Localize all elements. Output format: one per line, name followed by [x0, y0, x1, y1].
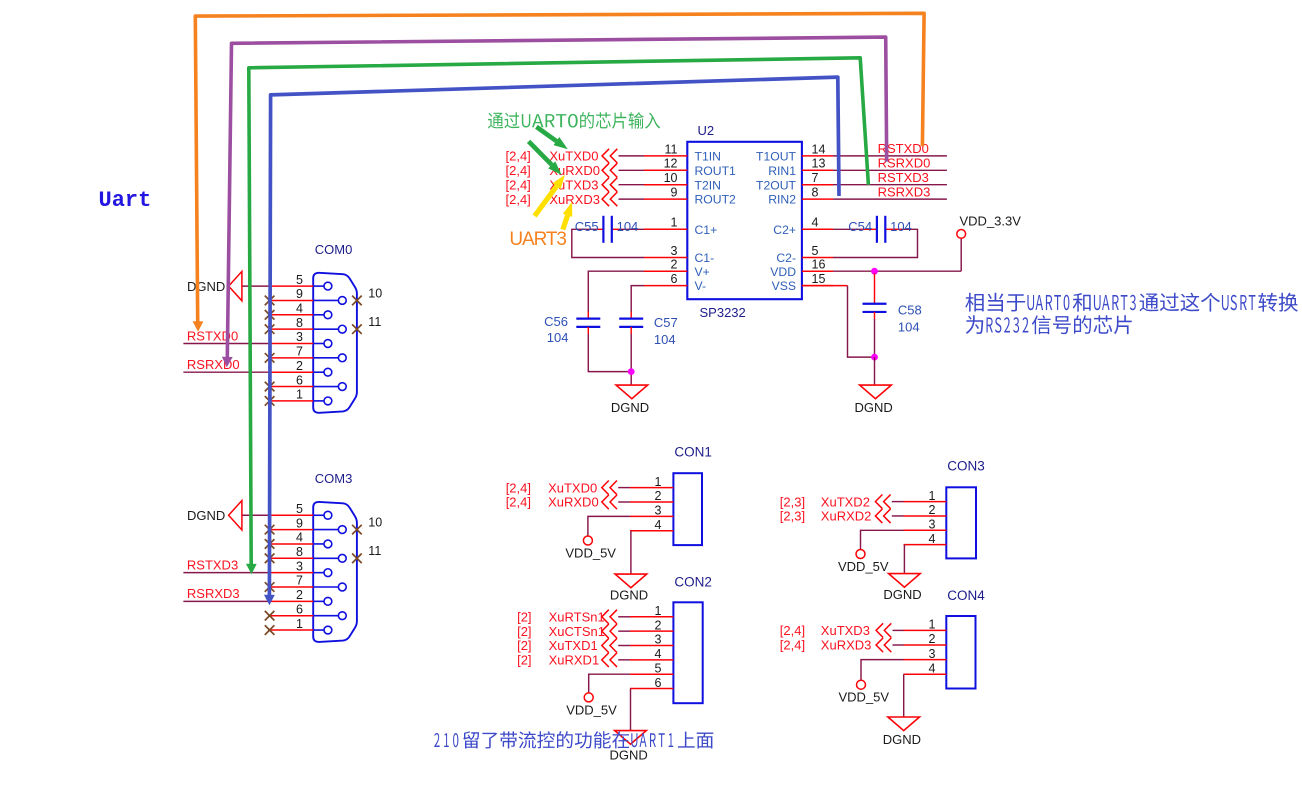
svg-text:T2IN: T2IN: [695, 178, 721, 192]
svg-text:10: 10: [368, 286, 382, 300]
svg-text:10: 10: [664, 171, 678, 185]
svg-text:16: 16: [812, 258, 826, 272]
svg-text:SP3232: SP3232: [700, 305, 746, 320]
svg-text:2: 2: [671, 258, 678, 272]
svg-text:RSTXD3: RSTXD3: [878, 170, 929, 185]
svg-text:XuRXD3: XuRXD3: [821, 638, 872, 653]
svg-text:RSRXD3: RSRXD3: [187, 586, 240, 601]
svg-text:11: 11: [665, 142, 678, 156]
svg-text:UART3: UART3: [509, 229, 566, 250]
svg-text:C1-: C1-: [695, 251, 715, 265]
svg-text:1: 1: [655, 475, 662, 489]
svg-text:6: 6: [296, 602, 303, 616]
svg-text:5: 5: [296, 273, 303, 287]
svg-text:1: 1: [296, 617, 303, 631]
svg-text:C56: C56: [544, 314, 568, 329]
svg-text:4: 4: [655, 647, 662, 661]
svg-text:3: 3: [655, 504, 662, 518]
svg-text:XuRTSn1: XuRTSn1: [549, 610, 605, 625]
svg-text:3: 3: [655, 633, 662, 647]
svg-text:[2,4]: [2,4]: [506, 495, 531, 510]
svg-text:XuRXD0: XuRXD0: [548, 495, 599, 510]
svg-text:XuRXD2: XuRXD2: [821, 509, 872, 524]
svg-text:2: 2: [296, 359, 303, 373]
svg-text:U2: U2: [698, 123, 715, 138]
svg-text:C57: C57: [654, 315, 678, 330]
svg-text:12: 12: [664, 157, 678, 171]
svg-text:104: 104: [654, 332, 676, 347]
svg-text:RSRXD0: RSRXD0: [187, 357, 240, 372]
svg-text:[2]: [2]: [517, 624, 531, 639]
svg-text:ROUT2: ROUT2: [695, 193, 737, 207]
svg-text:15: 15: [812, 272, 826, 286]
svg-text:1: 1: [929, 489, 936, 503]
svg-text:2: 2: [655, 489, 662, 503]
svg-text:T2OUT: T2OUT: [756, 178, 797, 192]
svg-text:4: 4: [655, 518, 662, 532]
svg-text:7: 7: [812, 171, 819, 185]
svg-text:4: 4: [929, 532, 936, 546]
svg-text:3: 3: [929, 647, 936, 661]
svg-text:3: 3: [296, 330, 303, 344]
svg-text:5: 5: [655, 661, 662, 675]
svg-text:3: 3: [296, 559, 303, 573]
svg-text:RIN1: RIN1: [768, 164, 796, 178]
svg-text:[2,4]: [2,4]: [506, 480, 531, 495]
svg-text:ROUT1: ROUT1: [695, 164, 737, 178]
svg-text:[2]: [2]: [517, 610, 531, 625]
svg-text:V+: V+: [695, 265, 710, 279]
svg-text:104: 104: [617, 219, 639, 234]
svg-text:7: 7: [296, 345, 303, 359]
svg-text:1: 1: [929, 618, 936, 632]
svg-text:XuCTSn1: XuCTSn1: [549, 624, 605, 639]
svg-text:2: 2: [929, 632, 936, 646]
svg-text:RSTXD0: RSTXD0: [187, 328, 238, 343]
svg-text:DGND: DGND: [187, 279, 225, 294]
svg-text:6: 6: [671, 272, 678, 286]
svg-text:RSRXD3: RSRXD3: [878, 184, 931, 199]
svg-text:VDD_5V: VDD_5V: [838, 559, 889, 574]
svg-text:T1OUT: T1OUT: [756, 150, 797, 164]
svg-text:5: 5: [812, 244, 819, 258]
svg-text:DGND: DGND: [610, 748, 648, 763]
svg-text:CON1: CON1: [674, 444, 712, 459]
svg-text:13: 13: [812, 157, 826, 171]
svg-text:2: 2: [296, 588, 303, 602]
svg-text:14: 14: [812, 142, 826, 156]
svg-text:4: 4: [296, 531, 303, 545]
svg-text:XuTXD3: XuTXD3: [821, 623, 870, 638]
svg-text:104: 104: [547, 330, 569, 345]
svg-text:XuRXD1: XuRXD1: [549, 653, 600, 668]
svg-text:8: 8: [296, 316, 303, 330]
svg-text:[2,3]: [2,3]: [780, 494, 805, 509]
svg-text:8: 8: [296, 545, 303, 559]
svg-text:4: 4: [296, 302, 303, 316]
svg-text:[2,4]: [2,4]: [506, 163, 531, 178]
svg-text:9: 9: [296, 516, 303, 530]
svg-text:C1+: C1+: [695, 223, 718, 237]
svg-text:XuTXD0: XuTXD0: [549, 149, 598, 164]
svg-text:3: 3: [929, 518, 936, 532]
svg-text:DGND: DGND: [883, 587, 921, 602]
svg-text:VSS: VSS: [772, 279, 796, 293]
svg-text:XuTXD0: XuTXD0: [548, 480, 597, 495]
svg-text:C2+: C2+: [773, 223, 796, 237]
svg-text:2: 2: [655, 618, 662, 632]
svg-text:10: 10: [368, 515, 382, 529]
svg-text:C2-: C2-: [776, 251, 796, 265]
svg-text:104: 104: [898, 320, 920, 335]
svg-text:[2]: [2]: [517, 653, 531, 668]
svg-text:2: 2: [929, 503, 936, 517]
svg-text:DGND: DGND: [854, 400, 892, 415]
svg-text:C55: C55: [575, 219, 599, 234]
svg-text:[2,4]: [2,4]: [780, 623, 805, 638]
svg-text:6: 6: [296, 373, 303, 387]
svg-text:CON2: CON2: [674, 574, 712, 589]
svg-text:Uart: Uart: [99, 188, 152, 213]
svg-text:9: 9: [296, 287, 303, 301]
svg-text:6: 6: [655, 676, 662, 690]
svg-text:VDD_5V: VDD_5V: [839, 690, 890, 705]
svg-text:XuTXD1: XuTXD1: [549, 638, 598, 653]
svg-text:1: 1: [655, 604, 662, 618]
svg-text:[2,3]: [2,3]: [780, 509, 805, 524]
svg-text:XuRXD3: XuRXD3: [549, 192, 600, 207]
svg-text:11: 11: [368, 544, 381, 558]
svg-text:XuTXD2: XuTXD2: [821, 494, 870, 509]
svg-text:3: 3: [671, 244, 678, 258]
svg-text:5: 5: [296, 502, 303, 516]
svg-text:V-: V-: [695, 279, 707, 293]
svg-text:[2,4]: [2,4]: [780, 638, 805, 653]
svg-text:VDD_5V: VDD_5V: [566, 702, 617, 717]
svg-text:104: 104: [890, 219, 912, 234]
svg-text:COM0: COM0: [315, 242, 353, 257]
svg-text:9: 9: [671, 186, 678, 200]
svg-text:7: 7: [296, 574, 303, 588]
svg-text:VDD_3.3V: VDD_3.3V: [960, 214, 1022, 229]
svg-text:8: 8: [812, 186, 819, 200]
svg-text:DGND: DGND: [883, 732, 921, 747]
svg-text:RSTXD3: RSTXD3: [187, 557, 238, 572]
svg-text:[2,4]: [2,4]: [506, 177, 531, 192]
svg-text:DGND: DGND: [610, 588, 648, 603]
svg-text:CON4: CON4: [947, 588, 985, 603]
svg-text:[2,4]: [2,4]: [506, 192, 531, 207]
svg-text:DGND: DGND: [611, 400, 649, 415]
svg-text:11: 11: [368, 315, 381, 329]
svg-text:4: 4: [812, 216, 819, 230]
svg-text:C58: C58: [898, 303, 922, 318]
svg-text:C54: C54: [848, 219, 872, 234]
svg-text:VDD: VDD: [770, 265, 796, 279]
svg-text:T1IN: T1IN: [695, 150, 721, 164]
svg-text:1: 1: [296, 388, 303, 402]
svg-text:COM3: COM3: [315, 471, 353, 486]
svg-text:[2,4]: [2,4]: [506, 149, 531, 164]
svg-text:1: 1: [671, 216, 678, 230]
svg-text:CON3: CON3: [947, 458, 985, 473]
svg-text:[2]: [2]: [517, 638, 531, 653]
svg-text:4: 4: [929, 661, 936, 675]
svg-text:VDD_5V: VDD_5V: [565, 546, 616, 561]
svg-text:DGND: DGND: [187, 508, 225, 523]
svg-text:RIN2: RIN2: [768, 193, 796, 207]
